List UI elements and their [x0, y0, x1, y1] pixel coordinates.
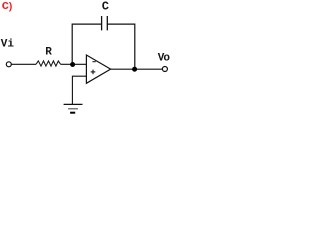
wire non-inverting input to ground: [72, 76, 86, 104]
output terminal Vo: [162, 67, 167, 72]
wire op-amp output: [111, 68, 163, 70]
capacitor C left plate: [101, 16, 103, 30]
node junction at inverting input: [70, 62, 75, 67]
input terminal Vi: [6, 62, 11, 67]
wire feedback right side down to output node: [107, 24, 135, 69]
resistor R: [36, 61, 61, 66]
capacitor C right plate: [106, 16, 108, 30]
svg-text:C: C: [102, 0, 109, 14]
ground: [64, 103, 83, 105]
wire resistor to op-amp inverting input: [61, 63, 87, 65]
svg-text:c): c): [2, 0, 14, 14]
op-amp minus sign: [92, 61, 95, 63]
svg-text:Vi: Vi: [1, 39, 15, 51]
svg-text:R: R: [45, 47, 52, 59]
op-amp plus sign: [91, 71, 96, 73]
svg-text:Vo: Vo: [158, 52, 171, 64]
op-amp U1 triangle: [86, 55, 110, 83]
wire input to resistor: [11, 63, 36, 65]
node output junction: [132, 67, 137, 72]
wire feedback left vertical: [72, 24, 101, 64]
